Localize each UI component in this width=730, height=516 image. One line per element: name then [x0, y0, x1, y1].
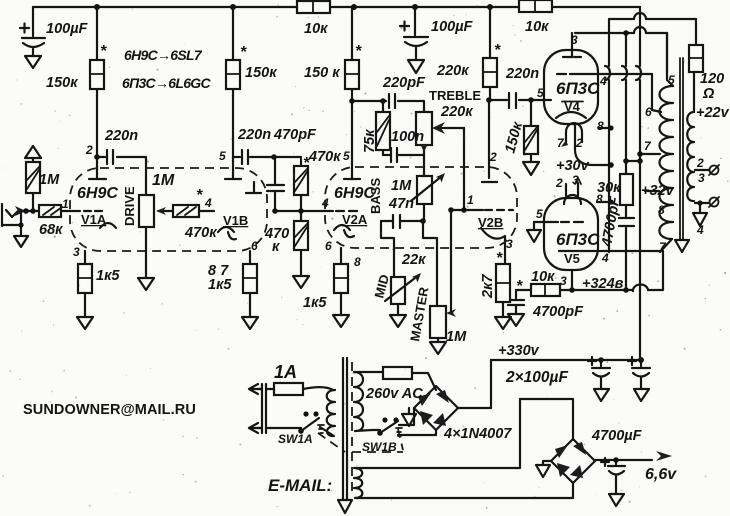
svg-text:*: *: [494, 42, 501, 59]
svg-text:470к: 470к: [184, 225, 217, 241]
svg-text:*: *: [516, 278, 523, 295]
svg-text:V1A: V1A: [81, 212, 107, 227]
svg-text:150к: 150к: [46, 75, 78, 91]
svg-text:6Н9С: 6Н9С: [77, 185, 118, 202]
svg-text:1к5: 1к5: [208, 277, 232, 293]
svg-text:*: *: [100, 43, 107, 60]
svg-text:5: 5: [343, 149, 350, 163]
svg-text:5: 5: [668, 73, 675, 87]
svg-text:100µF: 100µF: [431, 19, 474, 35]
svg-text:+330v: +330v: [498, 343, 540, 359]
svg-text:6П3С: 6П3С: [556, 79, 600, 98]
svg-text:7: 7: [644, 139, 652, 153]
svg-text:3: 3: [572, 173, 579, 187]
svg-text:1M: 1M: [152, 172, 175, 189]
svg-text:220pF: 220pF: [382, 75, 426, 91]
svg-text:+22v: +22v: [696, 105, 730, 121]
svg-text:2: 2: [489, 150, 497, 164]
svg-text:1M: 1M: [446, 329, 467, 345]
svg-text:6П3С→6L6GC: 6П3С→6L6GC: [122, 75, 211, 91]
svg-text:6: 6: [645, 105, 652, 119]
svg-text:*: *: [240, 44, 247, 61]
svg-text:V2B: V2B: [478, 215, 503, 230]
svg-text:100n: 100n: [391, 129, 424, 145]
svg-text:V1B: V1B: [223, 213, 248, 228]
svg-text:к: к: [272, 239, 280, 255]
svg-text:4: 4: [599, 74, 607, 88]
svg-text:*: *: [496, 250, 503, 267]
svg-text:*: *: [196, 187, 203, 204]
svg-text:5: 5: [536, 207, 543, 221]
svg-text:MASTER: MASTER: [407, 285, 431, 342]
svg-text:BASS: BASS: [368, 178, 383, 214]
svg-text:68к: 68к: [39, 222, 63, 238]
svg-text:1M: 1M: [391, 178, 412, 194]
svg-text:4700µF: 4700µF: [591, 428, 643, 444]
svg-text:+30v: +30v: [556, 158, 590, 174]
svg-text:SW1A: SW1A: [278, 432, 313, 446]
svg-text:6Н9С→6SL7: 6Н9С→6SL7: [124, 47, 203, 63]
svg-text:10к: 10к: [531, 269, 555, 285]
svg-text:2к7: 2к7: [480, 274, 496, 299]
svg-text:4: 4: [321, 196, 329, 210]
svg-text:SW1B: SW1B: [362, 440, 397, 454]
svg-text:7: 7: [557, 136, 565, 150]
svg-text:220к: 220к: [440, 104, 473, 120]
svg-text:220n: 220n: [237, 127, 271, 143]
svg-text:6: 6: [325, 239, 332, 253]
svg-text:4700pF: 4700pF: [532, 304, 584, 320]
svg-text:150к: 150к: [502, 120, 526, 155]
svg-text:75к: 75к: [362, 129, 378, 153]
svg-text:1: 1: [467, 193, 474, 207]
svg-text:*: *: [355, 43, 362, 60]
svg-text:3: 3: [571, 33, 578, 47]
svg-text:470к: 470к: [308, 149, 341, 165]
svg-text:4×1N4007: 4×1N4007: [443, 426, 512, 442]
svg-text:2: 2: [575, 136, 583, 150]
svg-text:220n: 220n: [505, 66, 539, 82]
svg-text:220к: 220к: [436, 63, 469, 79]
svg-text:DRIVE: DRIVE: [122, 186, 137, 226]
svg-text:6: 6: [251, 239, 258, 253]
svg-text:1к5: 1к5: [96, 268, 120, 284]
svg-text:10к: 10к: [525, 19, 549, 35]
svg-text:+324в: +324в: [582, 276, 624, 292]
svg-text:E-MAIL:: E-MAIL:: [268, 476, 332, 495]
svg-text:8: 8: [354, 255, 361, 269]
svg-text:MID: MID: [371, 273, 392, 300]
svg-text:1к5: 1к5: [303, 295, 327, 311]
svg-text:SUNDOWNER@MAIL.RU: SUNDOWNER@MAIL.RU: [23, 402, 196, 418]
svg-text:2×100µF: 2×100µF: [505, 369, 568, 386]
svg-text:6,6v: 6,6v: [645, 466, 677, 483]
svg-text:1M: 1M: [39, 172, 60, 188]
svg-text:5: 5: [219, 149, 226, 163]
svg-text:3: 3: [560, 274, 567, 288]
svg-text:1A: 1A: [274, 362, 297, 382]
svg-text:2: 2: [696, 156, 704, 170]
svg-text:120: 120: [700, 71, 724, 87]
svg-text:22к: 22к: [401, 252, 426, 268]
svg-text:4: 4: [696, 223, 704, 237]
svg-text:V2A: V2A: [342, 212, 368, 227]
svg-text:2: 2: [85, 143, 93, 157]
svg-text:8: 8: [596, 192, 603, 206]
svg-text:3: 3: [73, 245, 80, 259]
svg-text:3: 3: [698, 171, 705, 185]
svg-text:1: 1: [62, 197, 69, 211]
svg-text:TREBLE: TREBLE: [429, 88, 481, 103]
svg-text:6П3С: 6П3С: [556, 230, 600, 249]
svg-text:260v AC: 260v AC: [365, 386, 423, 402]
svg-text:2: 2: [555, 176, 563, 190]
svg-text:220n: 220n: [104, 128, 138, 144]
svg-text:3: 3: [506, 237, 513, 251]
svg-text:8: 8: [597, 119, 604, 133]
svg-text:V5: V5: [564, 251, 580, 266]
svg-text:*: *: [303, 155, 310, 172]
svg-text:100µF: 100µF: [46, 21, 89, 37]
svg-text:470pF: 470pF: [273, 127, 317, 143]
svg-text:+32v: +32v: [641, 183, 675, 199]
svg-text:Ω: Ω: [702, 86, 715, 102]
svg-text:150 к: 150 к: [304, 65, 340, 81]
svg-text:5: 5: [537, 86, 544, 100]
svg-text:4: 4: [601, 251, 609, 265]
svg-text:8: 8: [658, 203, 665, 217]
svg-text:10к: 10к: [304, 21, 328, 37]
svg-text:150к: 150к: [245, 65, 277, 81]
svg-text:4: 4: [204, 196, 212, 210]
svg-text:47n: 47n: [388, 196, 414, 212]
